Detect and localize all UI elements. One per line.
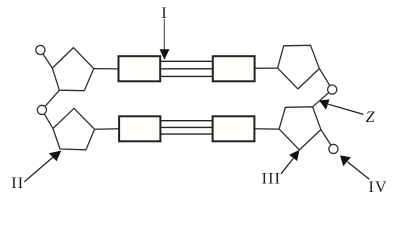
phosphate circle C3 (328, 85, 337, 94)
base rectangle B1 (top-left) (119, 56, 161, 81)
wire: sugar P3 right vertex to phosphate C3 (319, 69, 332, 90)
sugar pentagon P2 (bottom-left) (53, 108, 95, 150)
arrow III line (281, 159, 293, 174)
arrow IV line (348, 162, 370, 179)
svg-text:II: II (11, 175, 24, 192)
phosphate circle C2 (37, 105, 46, 114)
base rectangle B4 (bottom-right) (213, 116, 255, 141)
hydrogen bond line 1 bottom pair (160, 120, 213, 122)
sugar pentagon P3 (top-right) (278, 45, 320, 89)
wire: sugar P1 bottom-left vertex to phosphate C2 (42, 90, 60, 110)
arrow II head (49, 151, 61, 162)
wire: base rectangle B4 to sugar P4 left vertex (254, 128, 279, 130)
hydrogen bond line 2 top pair (160, 68, 213, 70)
arrow III head (289, 150, 299, 161)
arrow Z head (319, 99, 329, 109)
sugar pentagon P1 (top-left) (52, 48, 93, 91)
wire: base rectangle B2 to sugar P3 left vertex (254, 67, 278, 69)
sugar pentagon P4 (bottom-right) (279, 107, 321, 150)
wire: sugar P1 right vertex to base rectangle B1 (94, 68, 119, 70)
arrow I line (163, 19, 165, 50)
base rectangle B3 (bottom-left) (119, 116, 160, 141)
svg-text:Z: Z (366, 109, 376, 126)
arrow Z line (328, 104, 363, 114)
hydrogen bond line 2 bottom pair (160, 126, 213, 128)
wire: phosphate C1 to sugar P1 left vertex (40, 50, 52, 68)
hydrogen bond line 3 bottom pair (160, 133, 213, 135)
wire: sugar P4 right vertex to phosphate C4 (321, 130, 334, 149)
phosphate circle C4 (329, 144, 338, 153)
svg-text:IV: IV (369, 179, 388, 196)
phosphate circle C1 (36, 45, 45, 54)
svg-text:III: III (262, 171, 282, 188)
hydrogen bond line 1 top pair (160, 60, 213, 62)
base rectangle B2 (top-right) (213, 56, 255, 81)
arrow IV head (340, 155, 351, 166)
wire: phosphate C2 to sugar P2 left vertex (42, 110, 53, 129)
wire: phosphate C3 to sugar P4 top-right vertex (313, 90, 333, 107)
arrow II line (24, 157, 53, 182)
arrow I head (160, 49, 170, 60)
wire: sugar P2 right vertex to base rectangle B3 (95, 128, 120, 130)
hydrogen bond line 3 top pair (160, 75, 213, 77)
